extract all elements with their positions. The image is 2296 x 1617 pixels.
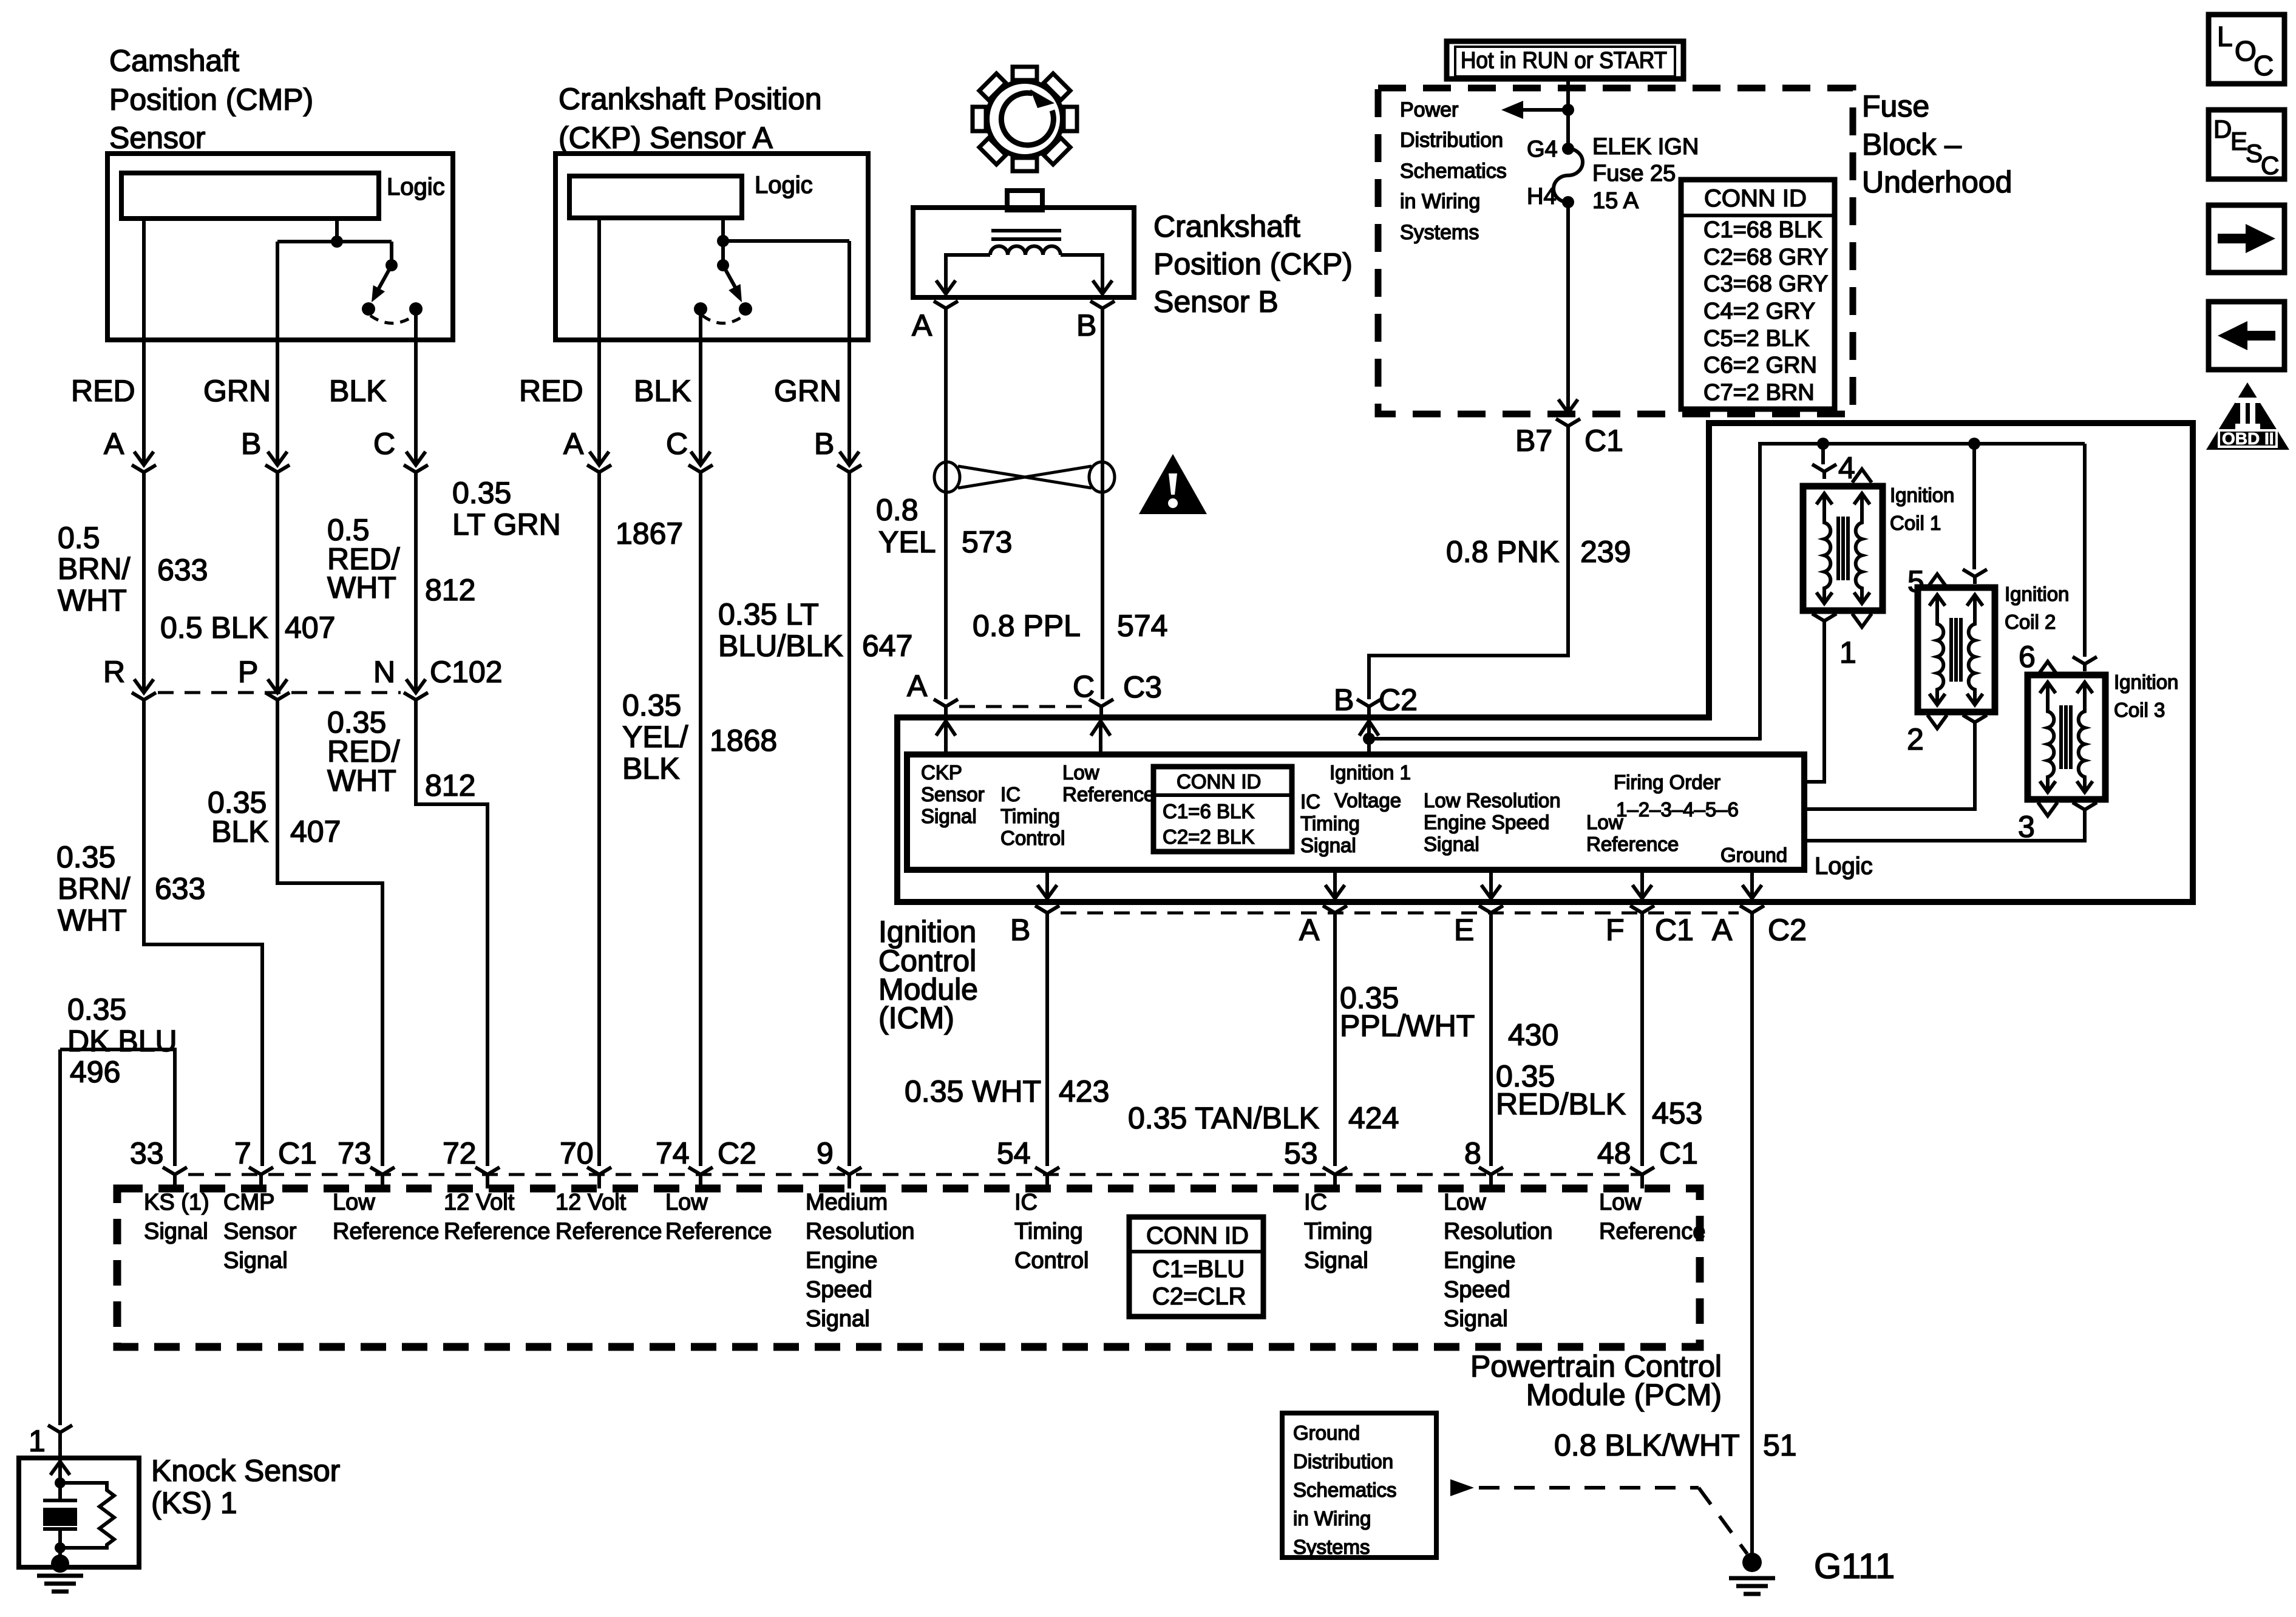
svg-text:Reference: Reference: [333, 1219, 439, 1244]
connector pin 70: [587, 1167, 611, 1188]
fuse 25 symbol: [1562, 143, 1574, 155]
PCM pin labels: [144, 1190, 1705, 1332]
connector pin A (CKP B): [934, 301, 958, 316]
connector pin 9: [837, 1167, 861, 1188]
svg-text:C1: C1: [1584, 424, 1623, 458]
svg-text:3: 3: [2018, 810, 2035, 844]
svg-text:CMP: CMP: [223, 1190, 274, 1215]
wire: CMP A wire to C102: [142, 480, 146, 693]
svg-text:Power: Power: [1400, 98, 1458, 121]
svg-text:C: C: [666, 427, 688, 461]
svg-text:Control: Control: [1000, 827, 1065, 849]
svg-text:H4: H4: [1527, 184, 1557, 209]
svg-text:BLK: BLK: [634, 374, 691, 408]
svg-text:0.35 LT: 0.35 LT: [718, 597, 819, 631]
connector pin 8: [1479, 1167, 1503, 1188]
svg-text:6: 6: [2019, 640, 2036, 674]
CONN ID table (ICM): [1153, 767, 1292, 852]
svg-text:812: 812: [425, 573, 475, 607]
C3 dashed connector line: [959, 705, 1088, 708]
svg-text:Fuse 25: Fuse 25: [1592, 161, 1676, 186]
node: KS bottom junction: [55, 1542, 66, 1553]
svg-text:KS (1): KS (1): [144, 1190, 209, 1215]
svg-text:C: C: [2261, 151, 2279, 180]
Ground Distribution Schematics box: [1282, 1413, 1436, 1558]
reluctor gear symbol: [973, 67, 1077, 171]
pin E arrow and connector: [1481, 870, 1501, 898]
svg-text:574: 574: [1117, 609, 1167, 643]
svg-text:C2: C2: [718, 1136, 756, 1170]
svg-text:GRN: GRN: [203, 374, 271, 408]
ignition coil 3: [2028, 675, 2105, 799]
svg-text:424: 424: [1348, 1101, 1399, 1135]
svg-text:S: S: [2246, 139, 2263, 168]
connector pin R (C102): [132, 679, 156, 707]
arrow: CKP sensor signal into ICM: [936, 721, 956, 754]
svg-text:Timing: Timing: [1300, 812, 1360, 835]
node: CMP junction: [331, 236, 343, 248]
coil 2 bottom connector pin 2: [1927, 715, 1947, 728]
svg-text:Signal: Signal: [806, 1306, 870, 1332]
connector pin N (C102): [404, 679, 428, 707]
coil 1 bottom connector pin 1: [1812, 614, 1836, 628]
svg-text:CONN ID: CONN ID: [1177, 770, 1261, 793]
CKP B core (flux lines): [991, 231, 1061, 239]
Hot in RUN or START box: [1447, 41, 1683, 79]
svg-text:Speed: Speed: [1444, 1277, 1510, 1303]
label: Knock Sensor (KS) 1: [151, 1454, 340, 1520]
svg-text:C6=2 GRN: C6=2 GRN: [1703, 353, 1817, 378]
connector pin 53: [1323, 1167, 1347, 1188]
wire: coil 3 drive: [1804, 813, 2085, 841]
wire: YEL 573 down: [944, 316, 948, 699]
svg-text:Fuse: Fuse: [1862, 89, 1929, 123]
svg-text:Voltage: Voltage: [1334, 789, 1401, 812]
svg-text:Logic: Logic: [755, 172, 813, 198]
svg-text:Resolution: Resolution: [806, 1219, 915, 1244]
svg-text:1868: 1868: [710, 724, 777, 758]
svg-text:RED/BLK: RED/BLK: [1496, 1087, 1626, 1121]
svg-text:Signal: Signal: [1304, 1248, 1368, 1273]
coil 3 bottom connector pin 3: [2038, 802, 2057, 816]
svg-text:C2=CLR: C2=CLR: [1152, 1283, 1246, 1310]
ignition coil 1: [1803, 486, 1883, 611]
label: 0.35 YEL/BLK: [622, 688, 688, 785]
connector pin 54: [1035, 1167, 1059, 1188]
svg-text:2: 2: [1907, 722, 1924, 756]
wire: CKP A BLK lead: [699, 309, 702, 340]
arrow inside knock sensor: [50, 1458, 70, 1483]
svg-text:C: C: [1073, 670, 1095, 703]
svg-text:12 Volt: 12 Volt: [555, 1190, 627, 1215]
svg-text:70: 70: [560, 1136, 594, 1170]
node: coil 2 feed: [1968, 438, 1980, 450]
svg-text:BRN/: BRN/: [58, 872, 131, 906]
label: Crankshaft Position (CKP) Sensor B: [1153, 209, 1353, 319]
svg-text:DK BLU: DK BLU: [67, 1024, 177, 1058]
svg-text:C2=2 BLK: C2=2 BLK: [1163, 825, 1254, 848]
svg-text:Ground: Ground: [1293, 1422, 1360, 1444]
connector pin P (C102): [265, 679, 290, 707]
node: CMP switch pivot: [385, 259, 398, 271]
wire: coil left lead: [946, 255, 990, 294]
wire: BLK 407 run to PCM pin 73: [277, 707, 382, 1166]
wire: fuse output down: [1566, 202, 1570, 413]
svg-text:B: B: [814, 427, 834, 461]
svg-text:R: R: [103, 655, 125, 689]
wire: LT GRN 1867 run to PCM pin 70: [597, 480, 601, 1166]
left arrow icon: [2209, 302, 2284, 370]
coil 1 top connector pin 4: [1812, 444, 1836, 479]
connector pin A (CKP A): [587, 452, 611, 480]
CONN ID table (fuse block): [1681, 180, 1835, 409]
svg-text:CONN ID: CONN ID: [1704, 185, 1807, 212]
svg-text:C1=68 BLK: C1=68 BLK: [1703, 217, 1822, 243]
svg-text:C7=2 BRN: C7=2 BRN: [1703, 380, 1815, 405]
svg-text:A: A: [1712, 913, 1733, 947]
svg-text:Low: Low: [1599, 1190, 1642, 1215]
svg-text:Systems: Systems: [1293, 1536, 1370, 1558]
CKP B pickup coil: [990, 246, 1061, 256]
CMP logic block: [121, 173, 379, 219]
wire: 0.35 TAN/BLK 424 (A to 53): [1333, 920, 1337, 1166]
switch travel arc (dashed, CKP A): [702, 316, 744, 324]
svg-text:Crankshaft Position: Crankshaft Position: [559, 82, 822, 116]
PCM dashed boundary: [117, 1188, 1700, 1347]
svg-text:Schematics: Schematics: [1400, 160, 1507, 183]
svg-text:1867: 1867: [616, 517, 683, 551]
svg-text:812: 812: [425, 768, 475, 802]
svg-text:N: N: [373, 655, 395, 689]
wire: CKP A pin A wire upper: [597, 340, 601, 465]
svg-text:B: B: [1334, 683, 1354, 717]
svg-text:0.5: 0.5: [58, 521, 100, 555]
svg-text:YEL: YEL: [878, 525, 936, 559]
wire: CMP A wire upper: [142, 340, 146, 465]
wire: CMP C wire to C102: [414, 480, 418, 693]
svg-text:Timing: Timing: [1014, 1219, 1083, 1244]
svg-text:Sensor: Sensor: [109, 121, 205, 155]
svg-text:Engine Speed: Engine Speed: [1424, 811, 1549, 833]
svg-text:51: 51: [1763, 1428, 1797, 1462]
node: CKP A junction: [717, 235, 729, 247]
svg-text:Reference: Reference: [555, 1219, 662, 1244]
svg-text:0.8 PNK: 0.8 PNK: [1446, 535, 1559, 569]
wire: LT BLU/BLK 647 run to PCM pin 9: [847, 480, 851, 1166]
connector pin 74 C2: [688, 1167, 713, 1188]
svg-text:RED: RED: [71, 374, 135, 408]
svg-text:Signal: Signal: [921, 805, 977, 827]
svg-text:F: F: [1606, 913, 1625, 947]
connector C3 pin A: [934, 699, 958, 717]
svg-text:Module (PCM): Module (PCM): [1526, 1378, 1722, 1412]
connector pin 48 C1: [1630, 1167, 1654, 1188]
connector pin B (CMP): [265, 452, 290, 480]
svg-text:Signal: Signal: [223, 1248, 288, 1273]
svg-text:in Wiring: in Wiring: [1293, 1507, 1371, 1530]
svg-text:in Wiring: in Wiring: [1400, 190, 1480, 213]
svg-text:Firing Order: Firing Order: [1614, 771, 1720, 793]
svg-text:Low: Low: [1062, 761, 1099, 784]
svg-text:15 A: 15 A: [1592, 188, 1639, 214]
CKP B sensor box: [913, 208, 1134, 297]
wire: DK BLU 496 knock sensor run: [60, 1049, 175, 1425]
svg-text:OBD II: OBD II: [2222, 429, 2274, 448]
wire: CMP B wire to C102: [276, 480, 279, 693]
svg-text:Camshaft: Camshaft: [109, 44, 239, 78]
label: 0.35 RED/WHT: [327, 705, 400, 798]
label: 0.5 BRN/WHT: [58, 521, 131, 617]
svg-text:430: 430: [1508, 1018, 1558, 1052]
connector pin B (CKP A): [837, 452, 861, 480]
svg-text:Reference: Reference: [1062, 783, 1155, 805]
PCM pin dashed connector line: [188, 1173, 1642, 1176]
label: Crankshaft Position (CKP) Sensor A: [559, 82, 822, 155]
switch arm (CMP): [379, 265, 392, 288]
svg-text:Signal: Signal: [144, 1219, 208, 1244]
svg-text:Low Resolution: Low Resolution: [1424, 789, 1561, 812]
right arrow icon: [2209, 205, 2284, 273]
svg-text:72: 72: [443, 1136, 477, 1170]
node: feed junction: [1562, 104, 1574, 116]
svg-text:YEL/: YEL/: [622, 720, 688, 754]
svg-text:239: 239: [1580, 535, 1631, 569]
svg-text:C3: C3: [1123, 670, 1162, 704]
svg-text:WHT: WHT: [58, 903, 127, 937]
wire: logic to junction (CKP A): [721, 218, 725, 241]
svg-text:C1=BLU: C1=BLU: [1152, 1256, 1245, 1283]
svg-text:Sensor: Sensor: [223, 1219, 297, 1244]
label: Camshaft Position (CMP) Sensor: [109, 44, 313, 155]
svg-text:Distribution: Distribution: [1293, 1450, 1393, 1473]
svg-text:647: 647: [862, 629, 912, 663]
svg-text:C102: C102: [430, 655, 503, 689]
wire: 0.35 PPL/WHT 430 (E to 8): [1489, 920, 1493, 1166]
svg-text:G111: G111: [1814, 1547, 1895, 1586]
svg-text:A: A: [907, 669, 928, 703]
svg-text:BLK: BLK: [329, 374, 387, 408]
label: Ignition Control Module (ICM): [878, 915, 978, 1035]
svg-text:Control: Control: [1014, 1248, 1089, 1273]
svg-text:Coil 2: Coil 2: [2005, 611, 2056, 633]
connector pin 33: [163, 1167, 187, 1188]
svg-text:C5=2 BLK: C5=2 BLK: [1703, 326, 1809, 351]
svg-text:Timing: Timing: [1000, 805, 1060, 827]
svg-text:L: L: [2217, 21, 2233, 52]
connector pin A (CMP): [132, 452, 156, 480]
svg-text:Low: Low: [333, 1190, 375, 1215]
svg-text:Resolution: Resolution: [1444, 1219, 1553, 1244]
svg-text:A: A: [563, 427, 584, 461]
svg-text:12 Volt: 12 Volt: [444, 1190, 515, 1215]
pin F arrow and connector: [1632, 870, 1652, 898]
CONN ID table (PCM): [1129, 1217, 1263, 1317]
svg-text:C1: C1: [278, 1136, 317, 1170]
ground symbol (knock sensor): [37, 1576, 83, 1592]
node: KS top junction: [55, 1477, 66, 1488]
arrow: ground distribution leader: [1450, 1479, 1474, 1496]
arrow: ignition 1 voltage into ICM: [1359, 721, 1379, 754]
svg-text:Reference: Reference: [1586, 833, 1679, 855]
connector pin B/C2 (ICM top): [1357, 699, 1381, 717]
wire: junction horizontal (CKP A): [723, 241, 849, 265]
svg-text:CONN ID: CONN ID: [1146, 1222, 1249, 1249]
label: 0.35 BLK: [208, 785, 269, 849]
svg-text:8: 8: [1464, 1136, 1481, 1170]
wire: CKP A pin B wire upper: [847, 340, 851, 465]
svg-text:A: A: [912, 308, 932, 342]
wire: BRN/WHT 633 run to PCM pin 7: [144, 707, 262, 1166]
svg-text:WHT: WHT: [327, 571, 396, 605]
svg-text:BLU/BLK: BLU/BLK: [718, 629, 843, 663]
C102 dashed connector line: [158, 691, 401, 694]
svg-text:Engine: Engine: [1444, 1248, 1515, 1273]
connector pin 73: [370, 1167, 395, 1188]
svg-text:Ignition: Ignition: [1890, 484, 1954, 506]
wire: coil 1 drive: [1804, 624, 1824, 782]
arrow: low reference into ICM: [1091, 721, 1110, 754]
svg-text:53: 53: [1284, 1136, 1318, 1170]
wire: hot feed into fuse block: [1566, 79, 1570, 149]
warning triangle: [1139, 454, 1207, 514]
svg-text:Ignition 1: Ignition 1: [1330, 761, 1411, 784]
LOC icon: [2209, 15, 2284, 84]
svg-text:Medium: Medium: [806, 1190, 888, 1215]
twisted pair symbol: [934, 462, 1115, 492]
node: coil 1 feed: [1817, 438, 1829, 450]
fuse block dashed boundary: [1378, 88, 1853, 414]
connector pin C (CKP A): [688, 452, 713, 480]
svg-text:Knock Sensor: Knock Sensor: [151, 1454, 340, 1488]
wire: CMP BLK lead inside box: [414, 309, 418, 340]
svg-text:B: B: [1076, 308, 1096, 342]
capacitor (piezo element): [43, 1499, 77, 1502]
CKP A logic block: [569, 176, 742, 218]
svg-text:Signal: Signal: [1444, 1306, 1508, 1332]
ICM pin dashed connector line: [1061, 912, 1739, 915]
svg-text:0.5 BLK: 0.5 BLK: [160, 611, 268, 645]
wire: 0.8 PNK 239 run: [1369, 433, 1568, 699]
svg-text:0.35: 0.35: [56, 840, 115, 874]
wire: RED/WHT 812 run to PCM pin 72: [416, 707, 487, 1166]
wire: CMP GRN lead inside box: [276, 242, 279, 340]
label: 0.8 YEL: [876, 493, 936, 559]
svg-text:407: 407: [290, 815, 341, 849]
wire: CKP A GRN lead: [847, 241, 851, 340]
svg-text:Position (CKP): Position (CKP): [1153, 247, 1353, 281]
label: 0.35 LT BLU/BLK: [718, 597, 843, 663]
ICM outer boundary (incl. coil bay): [897, 423, 2193, 902]
svg-text:0.35 WHT: 0.35 WHT: [905, 1074, 1041, 1108]
svg-text:BLK: BLK: [211, 815, 269, 849]
wire: junction horizontal: [277, 242, 392, 265]
svg-text:B7: B7: [1515, 424, 1552, 458]
svg-text:C: C: [373, 427, 395, 461]
svg-text:0.35: 0.35: [452, 476, 511, 510]
connector C3 pin C: [1089, 699, 1113, 717]
svg-text:C2: C2: [1379, 683, 1418, 717]
svg-text:48: 48: [1597, 1136, 1631, 1170]
pin A arrow and connector: [1325, 870, 1345, 898]
svg-text:496: 496: [70, 1055, 120, 1089]
svg-text:Crankshaft: Crankshaft: [1153, 209, 1300, 243]
svg-text:Reference: Reference: [665, 1219, 772, 1244]
CKP B mounting tab: [1007, 191, 1042, 210]
svg-text:C2: C2: [1768, 913, 1807, 947]
svg-text:A: A: [104, 427, 124, 461]
node: CMP switch contact left: [362, 302, 375, 316]
svg-text:0.8 PPL: 0.8 PPL: [973, 609, 1081, 643]
svg-text:LT GRN: LT GRN: [452, 507, 561, 541]
svg-text:Low: Low: [1444, 1190, 1486, 1215]
svg-text:IC: IC: [1304, 1190, 1327, 1215]
svg-text:Sensor B: Sensor B: [1153, 285, 1279, 319]
wire: KS to ground: [58, 1548, 62, 1564]
svg-text:C2=68 GRY: C2=68 GRY: [1703, 245, 1828, 270]
svg-text:633: 633: [157, 553, 208, 587]
OBD II icon: [2206, 382, 2289, 450]
wire: CMP B wire upper: [276, 340, 279, 465]
svg-text:Block –: Block –: [1862, 127, 1961, 161]
switch travel arc (dashed): [370, 316, 414, 324]
wire: 0.35 RED/BLK 453 (F to 48): [1640, 920, 1644, 1166]
label: Fuse Block - Underhood: [1862, 89, 2012, 199]
svg-text:7: 7: [234, 1136, 251, 1170]
svg-text:E: E: [2230, 127, 2247, 155]
svg-text:C1=6 BLK: C1=6 BLK: [1163, 800, 1254, 822]
svg-text:Reference: Reference: [444, 1219, 550, 1244]
ICM inner box: [907, 754, 1804, 870]
wire: CKP A RED lead: [597, 218, 601, 340]
label: Powertrain Control Module (PCM): [1470, 1349, 1722, 1412]
svg-text:407: 407: [285, 611, 335, 645]
connector pin 1 (knock sensor): [48, 1425, 72, 1458]
node: ignition voltage junction: [1363, 733, 1375, 745]
svg-text:Sensor: Sensor: [921, 783, 985, 805]
svg-text:IC: IC: [1000, 783, 1021, 805]
svg-text:B: B: [241, 427, 261, 461]
svg-text:Signal: Signal: [1300, 834, 1356, 856]
connector pin 7 C1: [249, 1167, 273, 1188]
svg-text:Ground: Ground: [1720, 844, 1787, 866]
resistor (knock sensor): [60, 1483, 114, 1548]
svg-text:D: D: [2213, 115, 2232, 143]
svg-text:1–2–3–4–5–6: 1–2–3–4–5–6: [1616, 798, 1739, 821]
node: CKP A switch pivot: [717, 259, 729, 271]
svg-text:Reference: Reference: [1599, 1219, 1705, 1244]
svg-text:GRN: GRN: [774, 374, 841, 408]
svg-text:Speed: Speed: [806, 1277, 872, 1303]
svg-text:Logic: Logic: [1815, 853, 1873, 880]
knock sensor box: [19, 1458, 139, 1567]
svg-text:423: 423: [1059, 1074, 1109, 1108]
ground G111: [1742, 1553, 1762, 1572]
connector pin C (CMP): [404, 452, 428, 480]
svg-text:C4=2 GRY: C4=2 GRY: [1703, 299, 1815, 324]
svg-text:Low: Low: [665, 1190, 708, 1215]
svg-text:Logic: Logic: [387, 174, 445, 200]
svg-text:0.8 BLK/WHT: 0.8 BLK/WHT: [1554, 1428, 1740, 1462]
connector pin 72: [475, 1167, 500, 1188]
svg-text:0.8: 0.8: [876, 493, 919, 527]
svg-text:PPL/WHT: PPL/WHT: [1340, 1009, 1475, 1043]
wire: CKP A pin C wire upper: [699, 340, 702, 465]
CMP sensor box: [107, 154, 453, 340]
connector pin B (CKP B): [1090, 301, 1115, 316]
svg-text:0.35: 0.35: [622, 688, 681, 722]
wire: CMP RED lead inside box: [142, 219, 146, 340]
svg-text:WHT: WHT: [58, 583, 127, 617]
